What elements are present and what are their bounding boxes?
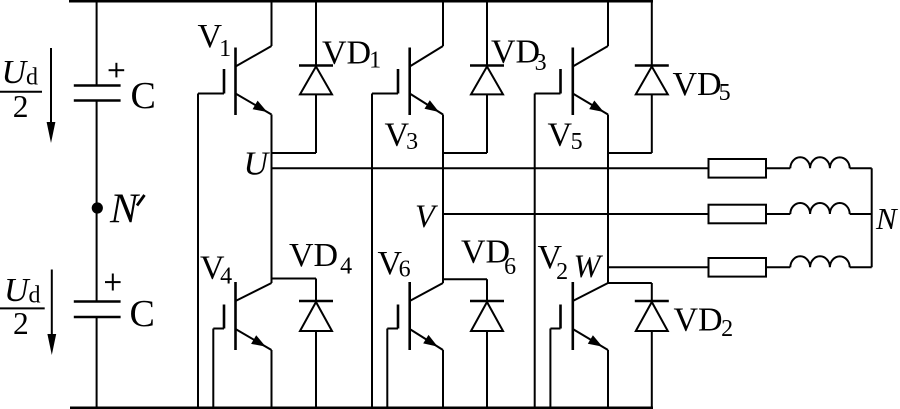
wire: gate lead of V6 [387,328,398,330]
inductor (phase U load L) [790,157,849,168]
wire: gate lead of V3 [372,93,398,95]
wire: gate drop of V3 to bottom rail [371,94,373,409]
wire: phase leg 2 midpoint vertical [442,115,444,284]
svg-text:N: N [875,201,899,236]
wire: phase leg 3 midpoint vertical [607,115,609,284]
resistor (phase V load R) [709,205,767,224]
transistor V5 collector wire from + bus [607,1,609,46]
wire: phase U output line [272,167,709,169]
diode VD3 top wire [486,1,488,65]
transistor V1 (IGBT upper) [236,46,272,67]
wire: DC-link left bus (capacitor branch) [96,0,98,86]
wire: neutral vertical joining three phases [871,168,873,267]
wire: gate drop of V6 to bottom rail [386,329,388,409]
svg-text:VD3: VD3 [491,34,547,77]
diode VD6 (antiparallel lower) [486,279,488,301]
capacitor C1 (upper DC-link cap) [74,84,121,87]
svg-text:d: d [26,65,38,91]
svg-text:N: N [109,187,140,233]
wire: gate drop of V2 to bottom rail [549,329,551,409]
arrow for lower Ud/2 [51,270,53,341]
capacitor C2 (lower DC-link cap) [74,300,121,303]
svg-text:U: U [2,54,29,91]
node N' (DC-link midpoint junction dot) [92,202,103,213]
transistor V3 (IGBT upper) [410,46,443,67]
wire: V5 emitter to VD5 anode jog [608,152,652,154]
wire: phase W output line [608,266,709,268]
svg-text:U: U [244,146,271,183]
svg-text:U: U [4,272,31,309]
wire: V3 emitter to VD3 anode jog [443,152,487,154]
wire: V resistor to inductor [766,213,790,215]
wire: negative DC bus (bottom rail) [70,407,653,409]
transistor V3 collector wire from + bus [442,1,444,46]
wire: gate drop of V4 to bottom rail [212,329,214,409]
wire: V inductor to neutral bus [850,213,872,215]
svg-text:d: d [29,283,41,309]
svg-text:C: C [131,75,156,117]
polarity + of C2 [105,281,121,283]
transistor V5 (IGBT upper) [573,46,608,67]
wire: V1 emitter to VD1 anode jog [272,152,317,154]
wire: V2 collector to VD2 cathode jog [608,282,652,284]
wire: emitter of V6 to bottom rail [442,350,444,408]
diode VD1 (antiparallel upper) [299,64,333,67]
wire: phase leg 1 midpoint vertical [271,115,273,284]
svg-text:W: W [574,249,604,285]
wire: V4 collector to VD4 cathode jog [272,278,317,280]
inductor (phase V load L) [790,203,849,214]
wire: gate lead of V4 [213,328,224,330]
wire: gate lead of V2 [550,328,560,330]
transistor V4 (IGBT lower) [236,283,272,301]
polarity + of C1 [109,69,125,71]
wire: gate lead of V1 [198,93,224,95]
inductor (phase W load L) [790,256,849,267]
wire: phase V output line [443,213,709,215]
svg-text:2: 2 [13,89,29,124]
wire: W inductor to neutral bus [850,266,872,268]
resistor (phase W load R) [709,258,767,277]
diode VD4 (antiparallel lower) [315,279,317,302]
wire: gate lead of V5 [535,93,561,95]
diode VD5 top wire [651,1,653,65]
diode VD1 top wire [315,1,317,65]
transistor V2 (IGBT lower) [573,283,608,301]
svg-text:V: V [415,199,438,235]
svg-text:C: C [130,293,155,335]
resistor (phase U load R) [709,159,767,178]
wire: gate drop of V1 to bottom rail [197,94,199,409]
wire: U resistor to inductor [766,167,790,169]
wire: positive DC bus (top rail) [69,0,653,3]
arrow for upper Ud/2 [50,48,52,128]
diode VD2 (antiparallel lower) [651,283,653,301]
diode VD5 (antiparallel upper) [635,64,669,67]
diode VD3 (antiparallel upper) [470,64,504,67]
svg-text:2: 2 [13,306,29,341]
wire: U inductor to neutral bus [850,167,872,169]
transistor V1 collector wire from + bus [271,1,273,46]
transistor V6 (IGBT lower) [410,283,443,301]
wire: gate drop of V5 to bottom rail [534,94,536,409]
wire: V6 collector to VD6 cathode jog [443,278,487,280]
wire: emitter of V4 to bottom rail [271,350,273,408]
wire: W resistor to inductor [766,266,790,268]
wire: emitter of V2 to bottom rail [607,350,609,408]
